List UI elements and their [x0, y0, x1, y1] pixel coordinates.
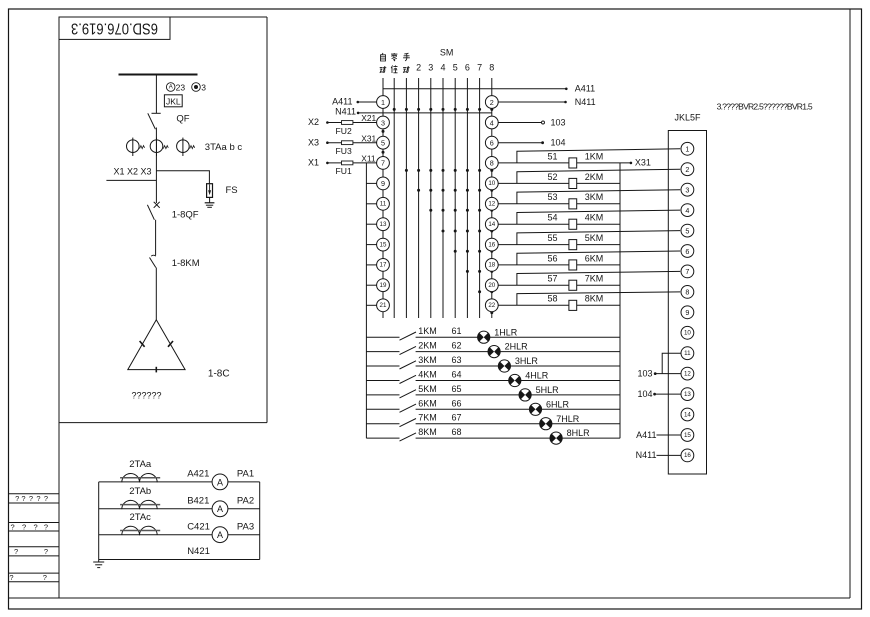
- svg-text:2KM: 2KM: [418, 341, 437, 351]
- node terminal 5: [377, 136, 390, 149]
- cam closure dots contact 15-16: [454, 250, 494, 253]
- svg-text:3: 3: [201, 82, 206, 92]
- wire below QF: [155, 128, 157, 204]
- svg-text:3: 3: [428, 63, 433, 73]
- svg-text:X31: X31: [361, 133, 376, 143]
- svg-text:?: ?: [29, 494, 33, 503]
- svg-text:1KM: 1KM: [585, 151, 604, 161]
- node terminal 3: [377, 116, 390, 129]
- wire stub to terminal 11: [366, 203, 376, 205]
- svg-text:?: ?: [11, 523, 15, 532]
- svg-text:7: 7: [381, 159, 385, 168]
- svg-text:9: 9: [685, 308, 689, 317]
- capacitor bank delta 1-8C: [128, 320, 230, 380]
- svg-text:N421: N421: [187, 546, 210, 557]
- svg-text:?: ?: [43, 573, 47, 582]
- svg-text:62: 62: [451, 341, 461, 351]
- svg-text:20: 20: [488, 282, 495, 289]
- svg-text:FU2: FU2: [336, 126, 352, 136]
- svg-text:13: 13: [684, 391, 691, 398]
- svg-text:14: 14: [684, 411, 691, 418]
- coil 2KM row: [498, 169, 680, 188]
- svg-text:16: 16: [488, 241, 495, 248]
- ground metering: [93, 560, 104, 568]
- node terminal 6: [485, 136, 498, 149]
- cam closure dots contact 9-10: [417, 189, 493, 192]
- svg-text:X21: X21: [361, 113, 376, 123]
- svg-text:8: 8: [489, 63, 494, 73]
- wire main feeder drop: [155, 75, 157, 114]
- svg-text:10: 10: [488, 180, 495, 187]
- svg-text:103: 103: [551, 117, 566, 127]
- node terminal 16: [485, 238, 498, 251]
- wire SM position column zero: [393, 78, 395, 318]
- terminal JKL5F-3: [681, 183, 694, 196]
- wire SM position column 5: [454, 78, 456, 318]
- breaker QF: [148, 113, 190, 129]
- svg-text:3HLR: 3HLR: [515, 356, 539, 366]
- svg-text:3.????BVR2.5??????BVR1.5: 3.????BVR2.5??????BVR1.5: [717, 102, 813, 112]
- coil 5KM row: [498, 231, 680, 250]
- wire SM position column 7: [479, 78, 481, 318]
- svg-text:5HLR: 5HLR: [536, 385, 560, 395]
- svg-text:A: A: [217, 504, 223, 514]
- position label shou-dong (manual): [403, 53, 410, 61]
- svg-text:11: 11: [684, 350, 691, 357]
- disconnect switch 1-8QF: [147, 202, 198, 256]
- svg-text:2KM: 2KM: [585, 172, 604, 182]
- svg-text:X1 X2 X3: X1 X2 X3: [114, 167, 152, 177]
- svg-text:51: 51: [547, 151, 557, 161]
- svg-text:7: 7: [685, 267, 689, 276]
- svg-text:8KM: 8KM: [418, 427, 437, 437]
- svg-text:N411: N411: [335, 107, 356, 117]
- cam closure dots contact 17-18: [466, 270, 493, 273]
- svg-text:?: ?: [34, 523, 38, 532]
- svg-text:23: 23: [176, 82, 186, 92]
- current transformers 3TAa b c: [127, 138, 145, 156]
- wire stub to terminal 13: [366, 223, 376, 225]
- terminal JKL5F-15: [681, 429, 694, 442]
- wire 104 to terminal 13: [637, 389, 680, 399]
- wire N411 right from terminal 2: [498, 97, 596, 107]
- node terminal 9: [377, 177, 390, 190]
- svg-text:56: 56: [547, 253, 557, 263]
- svg-text:A: A: [169, 85, 173, 91]
- terminal JKL5F-12: [681, 367, 694, 380]
- svg-text:104: 104: [637, 389, 652, 399]
- svg-text:52: 52: [547, 172, 557, 182]
- svg-text:A: A: [217, 530, 223, 540]
- svg-text:66: 66: [451, 398, 461, 408]
- wire SM position column 8: [491, 78, 493, 318]
- terminal JKL5F-7: [681, 265, 694, 278]
- svg-text:4KM: 4KM: [418, 370, 437, 380]
- svg-text:A411: A411: [636, 430, 656, 440]
- svg-text:2TAc: 2TAc: [129, 512, 151, 523]
- svg-text:17: 17: [380, 262, 387, 269]
- coil 8KM row: [498, 292, 680, 311]
- lamp circuit 7HLR row: [366, 413, 620, 430]
- wire stub to terminal 21: [366, 304, 376, 306]
- node terminal 10: [485, 177, 498, 190]
- svg-text:8: 8: [490, 159, 494, 168]
- node A411 left: [332, 97, 376, 107]
- node terminal 7: [377, 157, 390, 170]
- svg-text:15: 15: [380, 241, 387, 248]
- border frame inner right line: [849, 9, 851, 598]
- svg-text:12: 12: [488, 201, 495, 208]
- wire 103 from terminal 4: [498, 117, 565, 127]
- node terminal 17: [377, 259, 390, 272]
- terminal JKL5F-1: [681, 142, 694, 155]
- wire SM position column auto: [382, 78, 384, 318]
- svg-text:2TAa: 2TAa: [129, 459, 152, 470]
- svg-text:?: ?: [22, 523, 26, 532]
- svg-text:4: 4: [490, 118, 494, 127]
- svg-text:8HLR: 8HLR: [567, 428, 591, 438]
- svg-text:?: ?: [44, 523, 48, 532]
- svg-text:6: 6: [685, 247, 689, 256]
- cam closure dots contact 21-22: [490, 311, 493, 314]
- lamp circuit 8HLR row: [366, 427, 620, 444]
- svg-text:5KM: 5KM: [418, 384, 437, 394]
- svg-text:FU3: FU3: [336, 146, 352, 156]
- svg-text:X1: X1: [308, 158, 319, 168]
- svg-text:5: 5: [381, 139, 385, 148]
- svg-text:8: 8: [685, 288, 689, 297]
- svg-text:10: 10: [684, 330, 691, 337]
- svg-text:A: A: [217, 477, 223, 487]
- terminal JKL5F-2: [681, 163, 694, 176]
- svg-text:64: 64: [451, 370, 461, 380]
- terminal JKL5F-4: [681, 204, 694, 217]
- svg-text:6KM: 6KM: [418, 398, 437, 408]
- svg-text:A411: A411: [575, 84, 595, 94]
- fuse FU3 / wire X31: [308, 133, 377, 156]
- node terminal 1: [377, 96, 390, 109]
- svg-text:C421: C421: [187, 521, 210, 532]
- svg-text:X31: X31: [635, 158, 651, 168]
- title box 6SD.076.619.3: [59, 17, 170, 39]
- node terminal 11: [377, 197, 390, 210]
- svg-text:1-8QF: 1-8QF: [172, 210, 199, 221]
- svg-text:4HLR: 4HLR: [525, 371, 549, 381]
- node terminal 20: [485, 279, 498, 292]
- terminal JKL5F-13: [681, 388, 694, 401]
- svg-text:2: 2: [490, 98, 494, 107]
- svg-text:A411: A411: [332, 97, 352, 107]
- wire stub to terminal 17: [366, 264, 376, 266]
- svg-text:PA3: PA3: [237, 521, 254, 532]
- coil 3KM row: [498, 190, 680, 209]
- node terminal 22: [485, 299, 498, 312]
- wire SM position column manual: [405, 78, 407, 318]
- wire N411 to terminal 16: [636, 450, 681, 460]
- svg-text:7HLR: 7HLR: [556, 414, 580, 424]
- coil 7KM row: [498, 271, 680, 290]
- svg-text:21: 21: [380, 302, 387, 309]
- svg-text:63: 63: [451, 355, 461, 365]
- svg-text:1HLR: 1HLR: [494, 327, 518, 337]
- wire SM position column 4: [442, 78, 444, 318]
- coil 1KM row: [498, 149, 680, 168]
- svg-text:3KM: 3KM: [418, 355, 437, 365]
- node terminal 18: [485, 259, 498, 272]
- svg-text:67: 67: [451, 413, 461, 423]
- svg-text:?: ?: [44, 494, 48, 503]
- lamp circuit 3HLR row: [366, 355, 620, 372]
- svg-text:57: 57: [547, 274, 557, 284]
- svg-text:4: 4: [440, 63, 445, 73]
- bus right vertical (coil/lamp common): [619, 163, 621, 438]
- svg-text:55: 55: [547, 233, 557, 243]
- svg-text:FU1: FU1: [336, 166, 352, 176]
- svg-text:A421: A421: [187, 469, 209, 480]
- svg-text:?: ?: [44, 547, 48, 556]
- wire X31 tap on 1KM row: [630, 162, 633, 165]
- node terminal 4: [485, 116, 498, 129]
- svg-text:5: 5: [453, 63, 458, 73]
- svg-text:PA1: PA1: [237, 469, 254, 480]
- terminal JKL5F-16: [681, 449, 694, 462]
- terminal JKL5F-5: [681, 224, 694, 237]
- svg-text:4: 4: [685, 206, 689, 215]
- svg-text:6: 6: [465, 63, 470, 73]
- svg-text:1-8KM: 1-8KM: [172, 258, 200, 269]
- border frame inner bottom line: [9, 597, 851, 599]
- svg-text:68: 68: [451, 427, 461, 437]
- svg-text:JKL5F: JKL5F: [674, 112, 701, 122]
- svg-text:11: 11: [380, 201, 387, 208]
- bus left of metering circuit: [98, 482, 100, 560]
- svg-text:2TAb: 2TAb: [129, 486, 151, 497]
- svg-text:8KM: 8KM: [585, 294, 604, 304]
- lamp circuit 6HLR row: [366, 398, 620, 415]
- svg-text:2HLR: 2HLR: [505, 342, 529, 352]
- wire SM position column 3: [430, 78, 432, 318]
- svg-text:1KM: 1KM: [418, 326, 437, 336]
- node terminal 12: [485, 197, 498, 210]
- position label ling-wei (zero): [391, 53, 397, 61]
- cam closure dots contact 1-2: [393, 108, 494, 111]
- svg-text:3KM: 3KM: [585, 192, 604, 202]
- svg-text:7: 7: [477, 63, 482, 73]
- lamp circuit 1HLR row: [366, 326, 620, 343]
- terminal line under X1 X2 X3: [106, 179, 156, 181]
- svg-text:2: 2: [685, 165, 689, 174]
- svg-text:104: 104: [551, 138, 566, 148]
- svg-text:6: 6: [490, 139, 494, 148]
- node terminal 8: [485, 157, 498, 170]
- bus X11 left vertical: [365, 163, 367, 438]
- svg-text:16: 16: [684, 452, 691, 459]
- terminal JKL5F-8: [681, 286, 694, 299]
- svg-text:N411: N411: [575, 97, 596, 107]
- svg-text:1: 1: [381, 98, 385, 107]
- meter symbol W3: [192, 82, 207, 92]
- wire A411 to terminal 15: [636, 430, 681, 440]
- svg-text:14: 14: [488, 221, 495, 228]
- node terminal 13: [377, 218, 390, 231]
- meter symbol A23: [166, 82, 185, 92]
- legend table row lines: [9, 493, 60, 495]
- svg-text:JKL: JKL: [166, 96, 181, 106]
- branch wire to FS: [156, 171, 209, 184]
- wire stub to terminal 19: [366, 284, 376, 286]
- wire stub to terminal 15: [366, 244, 376, 246]
- svg-text:SM: SM: [440, 48, 454, 58]
- svg-text:19: 19: [380, 282, 387, 289]
- cam closure dots contact 7-8: [405, 169, 493, 172]
- svg-text:??????: ??????: [132, 391, 162, 401]
- node terminal 15: [377, 238, 390, 251]
- svg-text:4KM: 4KM: [585, 213, 604, 223]
- svg-text:54: 54: [547, 213, 557, 223]
- node terminal 19: [377, 279, 390, 292]
- svg-text:FS: FS: [226, 185, 238, 196]
- svg-text:QF: QF: [176, 113, 189, 124]
- svg-text:12: 12: [684, 370, 691, 377]
- wire SM position column 6: [466, 78, 468, 318]
- CT 2TAc and ammeter PA3: [99, 512, 260, 543]
- cam closure dots contact 11-12: [429, 209, 493, 212]
- svg-text:13: 13: [380, 221, 387, 228]
- svg-text:18: 18: [488, 262, 495, 269]
- node N411 left / wire: [335, 107, 492, 117]
- terminal JKL5F-14: [681, 408, 694, 421]
- position label zi-dong (auto): [381, 53, 386, 61]
- node terminal 21: [377, 299, 390, 312]
- svg-text:5KM: 5KM: [585, 233, 604, 243]
- lamp circuit 2HLR row: [366, 341, 620, 358]
- wire stub to terminal 9: [366, 182, 376, 184]
- node terminal 14: [485, 218, 498, 231]
- svg-text:6SD.076.619.3: 6SD.076.619.3: [71, 20, 158, 37]
- svg-text:7KM: 7KM: [418, 413, 437, 423]
- wire SM position column 2: [418, 78, 420, 318]
- svg-text:1: 1: [685, 145, 689, 154]
- terminal strip JKL5F box: [668, 131, 706, 475]
- busbar: [119, 74, 198, 76]
- terminal JKL5F-9: [681, 306, 694, 319]
- svg-text:6KM: 6KM: [585, 253, 604, 263]
- relay box JKL: [164, 95, 182, 107]
- terminal JKL5F-10: [681, 326, 694, 339]
- CT 2TAb and ammeter PA2: [99, 486, 260, 517]
- cam closure dots contact 19-20: [478, 290, 493, 293]
- svg-text:2: 2: [416, 63, 421, 73]
- svg-text:?: ?: [14, 547, 18, 556]
- svg-text:1-8C: 1-8C: [208, 369, 230, 380]
- svg-text:PA2: PA2: [237, 495, 254, 506]
- svg-text:3: 3: [381, 118, 385, 127]
- terminal JKL5F-6: [681, 245, 694, 258]
- svg-text:65: 65: [451, 384, 461, 394]
- arrester FS: [207, 184, 238, 198]
- terminal JKL5F-11: [681, 347, 694, 360]
- ground below FS: [205, 197, 215, 207]
- svg-text:61: 61: [451, 326, 461, 336]
- svg-text:N411: N411: [636, 450, 657, 460]
- svg-text:103: 103: [637, 368, 652, 378]
- svg-text:53: 53: [547, 192, 557, 202]
- svg-text:?: ?: [15, 494, 19, 503]
- svg-text:9: 9: [381, 179, 385, 188]
- svg-text:X2: X2: [308, 117, 319, 127]
- svg-text:?: ?: [36, 494, 40, 503]
- wire N421: [99, 546, 260, 559]
- fuse FU2 / wire X21: [308, 113, 377, 136]
- lamp circuit 4HLR row: [366, 370, 620, 387]
- contactor 1-8KM: [150, 255, 200, 319]
- svg-text:3TAa b c: 3TAa b c: [205, 142, 243, 153]
- bus right of metering circuit: [259, 482, 261, 560]
- svg-text:7KM: 7KM: [585, 274, 604, 284]
- fuse FU1 / wire X11: [308, 154, 377, 177]
- coil 6KM row: [498, 251, 680, 270]
- svg-text:X3: X3: [308, 137, 319, 147]
- CT 2TAa and ammeter PA1: [99, 459, 260, 490]
- junction dots below terminals 3 and 5: [382, 130, 385, 133]
- svg-text:15: 15: [684, 432, 691, 439]
- coil 4KM row: [498, 210, 680, 229]
- svg-text:5: 5: [685, 226, 689, 235]
- cam closure dots contact 13-14: [442, 230, 494, 233]
- panel box (single-line diagram enclosure): [59, 16, 267, 18]
- svg-text:3: 3: [685, 186, 689, 195]
- svg-text:X11: X11: [361, 154, 376, 164]
- node terminal 2: [485, 96, 498, 109]
- svg-text:58: 58: [547, 294, 557, 304]
- svg-text:B421: B421: [187, 495, 209, 506]
- svg-text:22: 22: [488, 302, 495, 309]
- svg-text:?: ?: [9, 573, 13, 582]
- wire A411 top bus: [383, 84, 595, 94]
- wire 103 to terminals 11-12: [637, 353, 680, 378]
- svg-text:6HLR: 6HLR: [546, 399, 570, 409]
- wire 104 from terminal 6: [498, 138, 565, 148]
- svg-text:?: ?: [21, 494, 25, 503]
- lamp circuit 5HLR row: [366, 384, 620, 401]
